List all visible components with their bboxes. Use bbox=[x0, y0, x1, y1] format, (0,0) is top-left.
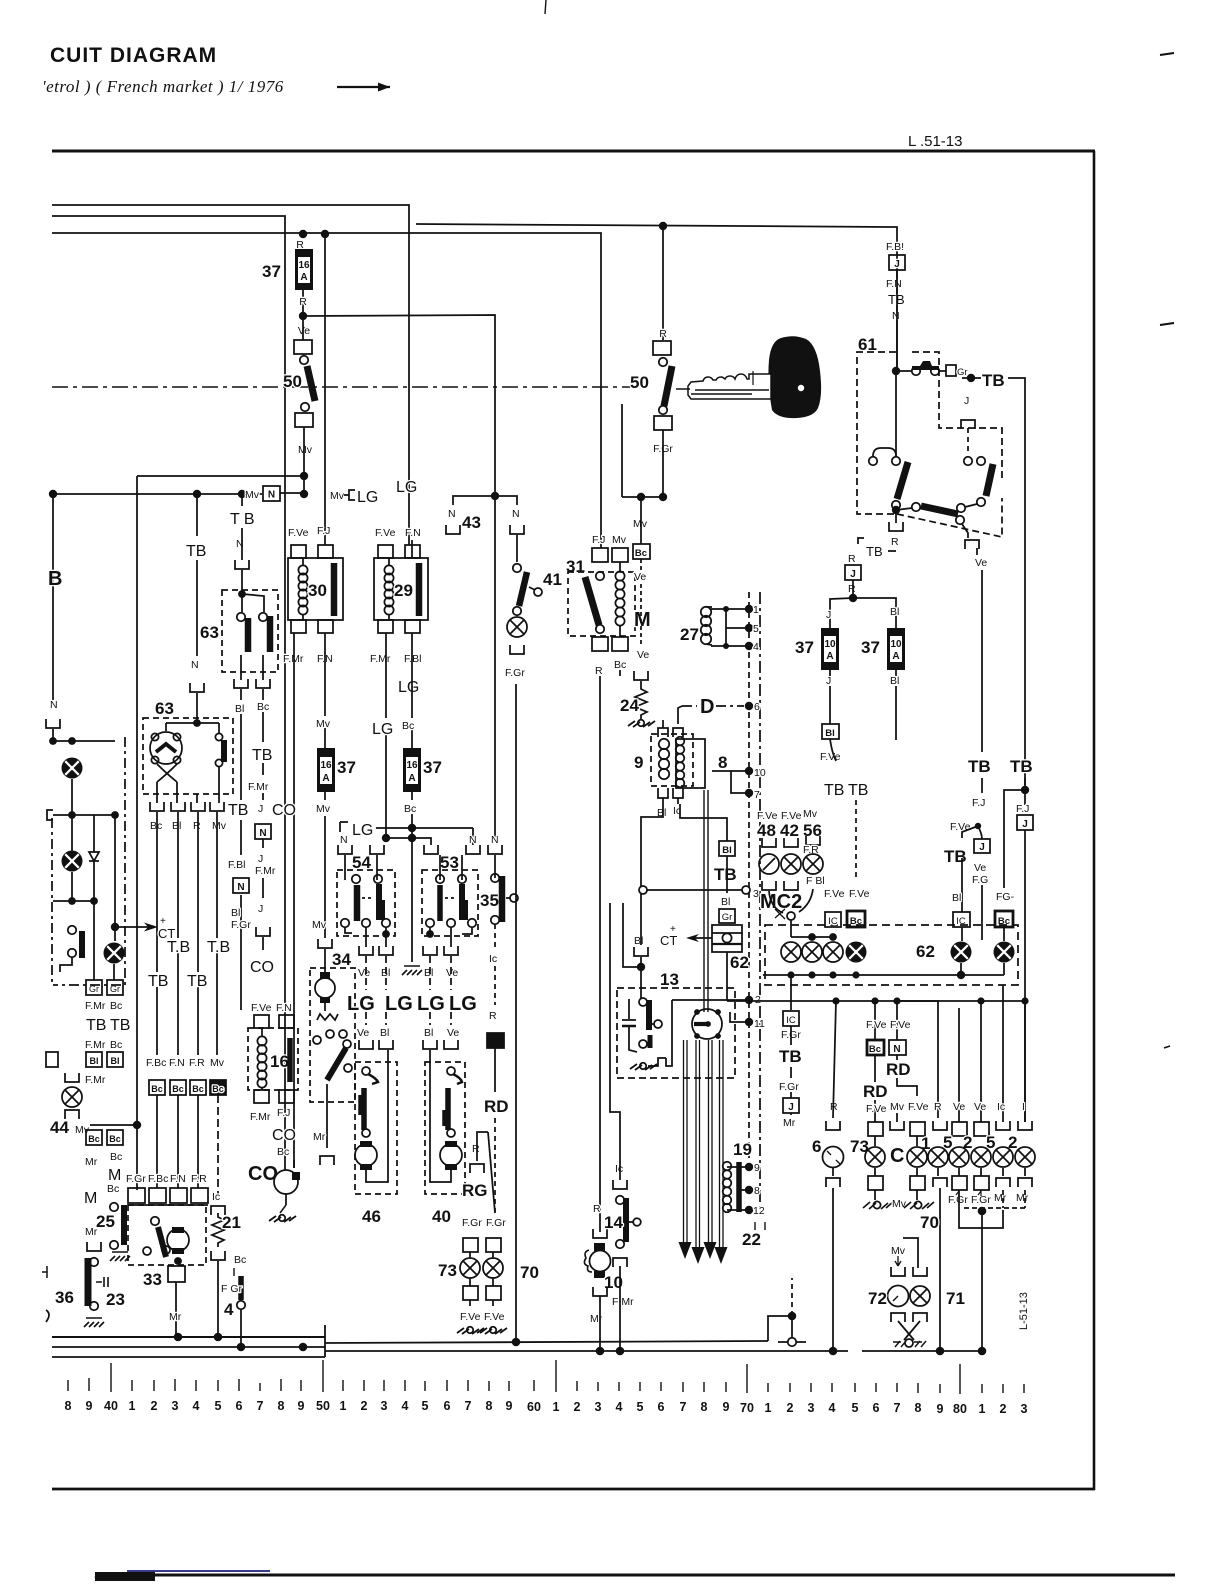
wire x=495 below 35 bbox=[494, 924, 496, 950]
svg-text:Ve: Ve bbox=[357, 1027, 369, 1039]
node (412,838) bbox=[408, 834, 416, 842]
svg-text:TB: TB bbox=[252, 747, 272, 764]
svg-text:Bl: Bl bbox=[890, 675, 899, 687]
wire from Bl box slanting to TB TB pair bbox=[830, 739, 836, 761]
svg-text:F.Mr: F.Mr bbox=[85, 1074, 106, 1086]
wire: vertical x=663 from bus down to switch 50 right bbox=[662, 226, 664, 340]
61 contact circles top-left pair with link bbox=[869, 448, 900, 465]
svg-text:6: 6 bbox=[812, 1137, 821, 1156]
labels Ve Bl below 54 bbox=[358, 967, 390, 979]
connector box N x=240 bbox=[233, 878, 249, 893]
wire down to switch 41 bbox=[516, 535, 518, 562]
node pin10 bbox=[745, 767, 766, 779]
svg-text:16: 16 bbox=[298, 260, 310, 271]
svg-text:7: 7 bbox=[894, 1401, 901, 1415]
svg-text:TB: TB bbox=[944, 847, 967, 866]
wire x=495 into 35 bbox=[494, 855, 496, 878]
34 pivot circles bbox=[343, 1040, 352, 1072]
svg-text:Mv: Mv bbox=[312, 919, 327, 931]
svg-text:5: 5 bbox=[852, 1401, 859, 1415]
svg-text:TB: TB bbox=[228, 802, 248, 819]
svg-text:F.G: F.G bbox=[972, 874, 988, 886]
wire from Gr connector to TB corner wire bbox=[962, 378, 1025, 805]
61 right blade (black) bbox=[986, 464, 993, 496]
svg-text:F.Ve: F.Ve bbox=[950, 821, 971, 833]
34 contact circles bbox=[313, 1030, 347, 1044]
coil 16 bar bbox=[287, 1038, 293, 1082]
wire x=53 to junction y=741 bbox=[52, 729, 54, 741]
instrument lamp x=1003 bbox=[993, 1147, 1013, 1167]
svg-text:2: 2 bbox=[574, 1400, 581, 1414]
40 motor bbox=[440, 1141, 462, 1170]
ruler numbers bbox=[65, 1399, 1028, 1416]
27 leads to strip dots bbox=[711, 609, 749, 646]
svg-text:F.Ve: F.Ve bbox=[288, 527, 309, 539]
bracket below lamp 1003 bbox=[996, 1178, 1010, 1187]
svg-text:CO: CO bbox=[272, 1127, 296, 1144]
labels F.Mr F.J below 16 bbox=[250, 1107, 290, 1123]
35 lower contact circle bbox=[491, 916, 499, 924]
svg-text:Bc: Bc bbox=[172, 1084, 184, 1094]
svg-text:Ve: Ve bbox=[634, 571, 646, 583]
node (72,815) bbox=[68, 811, 76, 819]
wire x=620 below 31 short bbox=[619, 670, 621, 676]
fuse panel connector boxes row bbox=[128, 1188, 208, 1203]
wires below 63 lower box bbox=[157, 767, 219, 803]
labels TB TB bbox=[824, 782, 868, 799]
wire x=981 from rail down bbox=[980, 1001, 982, 1122]
wire from J box to fuse feed node bbox=[852, 580, 854, 598]
svg-text:21: 21 bbox=[222, 1213, 241, 1232]
nodes on 62 bottom rail bbox=[787, 971, 859, 978]
brackets above motor boxes bbox=[359, 1040, 458, 1049]
svg-text:Bc: Bc bbox=[110, 1151, 122, 1163]
heater switch 14 column wire from 13 area bbox=[610, 903, 620, 1180]
labels F.Gr F.Gr above 73 lamps bbox=[462, 1217, 506, 1229]
svg-text:Bc: Bc bbox=[151, 1084, 163, 1094]
label RD x=875 bbox=[862, 1082, 889, 1101]
46 lower contact circle bbox=[362, 1129, 370, 1137]
wire x=409 LG continue (relay29 F.N col) bbox=[411, 545, 413, 558]
node pin1 bbox=[723, 604, 759, 616]
svg-text:60: 60 bbox=[527, 1400, 541, 1414]
switch 50 left: lower contact circle bbox=[301, 403, 309, 411]
brackets below 53 bbox=[423, 946, 458, 955]
spark plug wire 4 bbox=[715, 1040, 728, 1264]
L2 step up to connector bbox=[768, 1316, 792, 1341]
svg-text:1: 1 bbox=[553, 1400, 560, 1414]
bracket above lamp 6 bbox=[826, 1121, 840, 1130]
svg-text:N: N bbox=[491, 834, 499, 846]
svg-text:11: 11 bbox=[754, 1018, 765, 1030]
svg-text:Bl: Bl bbox=[424, 967, 433, 979]
interior lamp feed loop bbox=[903, 1238, 918, 1268]
node on bus y=233 at x=303 bbox=[299, 230, 307, 238]
node (961,975) bbox=[957, 971, 965, 979]
rail below connector row bbox=[128, 1204, 208, 1206]
coil 16 terminals top bbox=[254, 1015, 294, 1028]
instrument lamp x=917 bbox=[907, 1147, 927, 1167]
svg-text:Mv: Mv bbox=[803, 808, 818, 820]
svg-text:62: 62 bbox=[916, 942, 935, 961]
connector box IC x=833 bbox=[825, 912, 841, 927]
wire: long vertical x=137 down to y=1125 bbox=[136, 476, 138, 1125]
LG row big labels bbox=[347, 993, 477, 1015]
svg-text:Mv: Mv bbox=[298, 444, 313, 456]
wire below fuse F5 down to LG rail bbox=[411, 792, 413, 800]
63 distributor rim circles bbox=[151, 733, 180, 763]
svg-text:F.J: F.J bbox=[1016, 803, 1029, 815]
svg-text:N: N bbox=[512, 508, 520, 520]
node pin9 bbox=[745, 1162, 760, 1174]
connector box Bc on x=641 bbox=[633, 544, 650, 559]
dash-dot stub left of key bbox=[676, 388, 690, 390]
contact 4 circle bbox=[237, 1301, 245, 1309]
node (178,1337) bbox=[174, 1333, 183, 1342]
wire x=982 below TB to F.J bbox=[981, 778, 983, 793]
bracket below J bbox=[961, 420, 975, 429]
node (115,815) bbox=[111, 811, 119, 819]
svg-text:LG: LG bbox=[385, 993, 413, 1015]
svg-text:F.Mr: F.Mr bbox=[85, 1000, 106, 1012]
wire x=218 to bottom rail bbox=[217, 1261, 219, 1338]
switch 50 left: upper contact circle bbox=[300, 356, 308, 364]
40 park switch wiggle bbox=[453, 1074, 462, 1084]
ignition key silhouette bbox=[768, 336, 821, 418]
svg-text:Bc: Bc bbox=[869, 1044, 881, 1055]
svg-text:F.Mr: F.Mr bbox=[370, 653, 391, 665]
46 internal return wire bbox=[366, 1050, 388, 1182]
svg-text:Mv: Mv bbox=[330, 490, 345, 502]
svg-text:F.Mr: F.Mr bbox=[248, 781, 269, 793]
62 lamp box bottom rail right part bbox=[856, 974, 1004, 976]
wire x=830 from fuse F2 to Bl box bbox=[829, 686, 831, 724]
svg-text:Mv: Mv bbox=[890, 1101, 905, 1113]
wire x=286 into pump bbox=[285, 1169, 287, 1171]
heater motor 10 bbox=[590, 1243, 611, 1278]
fuse F3 37 (10A) bbox=[887, 628, 905, 670]
bottom rail L3 bbox=[52, 1356, 325, 1358]
node (197,494) bbox=[193, 490, 201, 498]
62 dashed lamp box outline bbox=[765, 925, 1018, 985]
scan artifact: right margin dash 1 bbox=[1160, 53, 1174, 55]
switch 50 right: blade bbox=[664, 366, 672, 406]
wire from node into J box below bbox=[978, 826, 982, 839]
wire x=137 down to bottom rail bbox=[136, 1125, 138, 1190]
node (53,494) bbox=[49, 490, 57, 498]
labels F.Gr F.Gr Mr Mr bbox=[948, 1192, 1029, 1206]
63 upper dashed box bbox=[222, 590, 278, 672]
svg-text:Bc: Bc bbox=[635, 548, 647, 559]
wire x=896 down inside 61 bbox=[895, 371, 897, 457]
bracket end of Mr wire bbox=[320, 1156, 334, 1165]
LG rail y=828 bbox=[376, 827, 473, 829]
label Mv + LG tap symbol bbox=[330, 489, 378, 506]
battery + terminal CT arrow bbox=[660, 924, 712, 948]
svg-text:MC2: MC2 bbox=[760, 891, 802, 913]
svg-text:10: 10 bbox=[890, 639, 902, 650]
connector box Bl B bbox=[107, 1052, 123, 1067]
svg-text:F Gr: F Gr bbox=[221, 1283, 242, 1295]
svg-text:LG: LG bbox=[357, 489, 378, 506]
node (72,901) bbox=[68, 897, 76, 905]
scan artifact: right margin dash 3 bbox=[1164, 1046, 1170, 1048]
svg-text:Mv: Mv bbox=[891, 1245, 906, 1257]
wire x=641 dashed below Bc bbox=[640, 497, 642, 544]
contact stub to circle right in 13 bbox=[652, 1023, 654, 1025]
node (72,741) bbox=[68, 737, 76, 745]
wire x=262 down bbox=[262, 839, 264, 898]
bracket link right of ground bbox=[648, 1058, 666, 1066]
svg-text:2: 2 bbox=[151, 1399, 158, 1413]
connector circle on L4 bbox=[778, 1320, 806, 1346]
svg-text:5: 5 bbox=[637, 1400, 644, 1414]
31 blade (black) bbox=[585, 577, 599, 625]
wire to lamp 73 bbox=[874, 1136, 876, 1146]
wire x=641 dashed to Ve bbox=[640, 584, 642, 645]
svg-text:J: J bbox=[1022, 819, 1028, 830]
flasher taps to pins bbox=[727, 1167, 749, 1210]
svg-text:37: 37 bbox=[337, 758, 356, 777]
wire x=641 segment bbox=[640, 559, 642, 570]
svg-text:F.Gr: F.Gr bbox=[231, 919, 251, 931]
lamp row: labels 1 5 2 5 2 bbox=[921, 1133, 1017, 1153]
svg-text:6: 6 bbox=[444, 1399, 451, 1413]
washer motor 40 dashed box bbox=[425, 1062, 465, 1194]
grounds below 73 lamps bbox=[457, 1327, 507, 1334]
svg-text:Ic: Ic bbox=[489, 953, 497, 965]
svg-text:Mv: Mv bbox=[245, 489, 260, 501]
node (896,371) bbox=[892, 367, 900, 375]
regulator contact circle bbox=[151, 1217, 159, 1225]
node pin8 bbox=[745, 1185, 760, 1197]
label N + 43 connector bbox=[446, 508, 481, 534]
dashed wire J down to contacts bbox=[967, 428, 969, 455]
svg-text:Bl: Bl bbox=[172, 820, 181, 832]
connector box Gr A bbox=[86, 980, 102, 995]
wire x=727 to Bl label bbox=[726, 856, 728, 893]
bracket x=600 bbox=[593, 1229, 607, 1238]
label T.B pair mid bbox=[167, 938, 233, 956]
svg-text:Bc: Bc bbox=[110, 1000, 122, 1012]
53 bottom contact circles bbox=[426, 919, 476, 927]
labels F.Mr Bc row2 bbox=[85, 1039, 122, 1051]
connector box IC x=791 bbox=[783, 1011, 799, 1026]
svg-text:F.R: F.R bbox=[191, 1173, 207, 1185]
wire from coil 9 Ic terminal to Bl box column bbox=[680, 804, 727, 841]
regulator blade bbox=[158, 1227, 166, 1257]
svg-text:Bl: Bl bbox=[380, 1027, 389, 1039]
62 lamp 3 bbox=[823, 942, 843, 962]
labels J F.Mr x=262 bbox=[255, 853, 276, 877]
fog lamp (open) bbox=[62, 1087, 82, 1107]
wire x=938 from rail down bbox=[897, 1001, 938, 1118]
wire from lower contact to Ve bracket bbox=[962, 524, 968, 538]
distributor rotor bar bbox=[694, 1022, 706, 1026]
svg-text:N: N bbox=[893, 1044, 900, 1055]
node (242,494) bbox=[238, 490, 246, 498]
svg-text:35: 35 bbox=[480, 891, 499, 910]
svg-text:7: 7 bbox=[465, 1399, 472, 1413]
label TB on x=197 bbox=[186, 541, 209, 560]
svg-text:Mr: Mr bbox=[1016, 1192, 1029, 1204]
bracket below fog lamp bbox=[65, 1110, 79, 1119]
coil 16 dashed box bbox=[248, 1028, 298, 1090]
coil 9 secondary winding bbox=[676, 737, 685, 788]
svg-text:2: 2 bbox=[1000, 1402, 1007, 1416]
wire: bus line y=225 right section to corner x=897 bbox=[416, 224, 897, 371]
relay 30 box bbox=[288, 558, 343, 620]
svg-text:34: 34 bbox=[332, 950, 351, 969]
wire relay30 F.Mr down bbox=[293, 633, 295, 1168]
svg-text:F Bl: F Bl bbox=[806, 875, 825, 887]
connector box x=875 bbox=[868, 1122, 883, 1136]
bracket x=1025 bbox=[1018, 1121, 1032, 1130]
svg-text:FG-: FG- bbox=[996, 891, 1015, 903]
svg-text:R: R bbox=[659, 328, 667, 340]
63 lower internal feed wires bbox=[166, 723, 219, 733]
wire x=833 lamp6 to rail bbox=[832, 1188, 834, 1351]
svg-text:F.Gr: F.Gr bbox=[779, 1081, 799, 1093]
node (218,1337) bbox=[214, 1333, 223, 1342]
svg-text:Bl: Bl bbox=[825, 728, 835, 739]
warning lamp under 41 bbox=[507, 617, 527, 637]
wire Bc box to lamp bbox=[1003, 927, 1005, 941]
connector box J on x=897 bbox=[889, 255, 905, 270]
relay 29 box bbox=[374, 558, 428, 620]
label Mv above fuse F4 bbox=[316, 716, 334, 730]
wire into 34 bbox=[324, 949, 326, 974]
labels Bl Bc bbox=[235, 701, 269, 715]
node (982,1211) bbox=[978, 1207, 987, 1216]
instrument lamp x=959 bbox=[949, 1147, 969, 1167]
wire from MC2 common down to lamp feed bbox=[790, 920, 792, 937]
wire relay29 F.Mr down bbox=[385, 633, 387, 838]
pilot lamp mid (filled) bbox=[104, 943, 125, 964]
ground below lamp 73b bbox=[863, 1190, 893, 1209]
wire below fuse F3 down bbox=[895, 670, 897, 676]
wire x=516 from 70 down to rail bbox=[515, 1232, 517, 1342]
switch 50 right: upper terminal box bbox=[653, 341, 671, 355]
connector box Bc on x=495 bbox=[487, 1033, 504, 1048]
wire: bus line y=233 turning down at x=601 bbox=[52, 233, 601, 548]
wire x=959 column bbox=[958, 1008, 960, 1122]
bracket above Ve bbox=[965, 540, 979, 549]
bracket x=641 bbox=[634, 947, 648, 956]
labels F.Ve F.Ve above IC Bc bbox=[824, 888, 870, 900]
node (971,378) bbox=[967, 374, 975, 382]
svg-text:4: 4 bbox=[224, 1300, 234, 1319]
wire x=72 lamp to junction y=815 bbox=[71, 779, 73, 866]
svg-text:T.B: T.B bbox=[167, 939, 190, 956]
border: top edge bbox=[52, 150, 1095, 153]
bracket below 14 bbox=[613, 1258, 627, 1267]
coil 16 winding bbox=[257, 1028, 266, 1090]
svg-text:Ic: Ic bbox=[615, 1163, 623, 1175]
labels Bl Ic below coil 9 bbox=[657, 805, 681, 819]
resistor 24 zigzag bbox=[635, 681, 647, 720]
branch from node to x=1004 down bbox=[1004, 790, 1025, 888]
relay 30 coil bbox=[298, 558, 307, 620]
svg-text:Bc: Bc bbox=[277, 1146, 289, 1158]
svg-text:TB: TB bbox=[86, 1017, 106, 1034]
switch 50 right: upper contact circle bbox=[659, 358, 667, 366]
node (641,967) bbox=[637, 963, 645, 971]
svg-text:Bc: Bc bbox=[614, 659, 626, 671]
svg-text:F.J: F.J bbox=[277, 1107, 290, 1119]
scan artifact: right margin dash 2 bbox=[1160, 323, 1174, 325]
svg-text:R: R bbox=[489, 1010, 497, 1022]
wire x=241 to bottom rail bbox=[240, 1309, 242, 1347]
regulator lower circles bbox=[143, 1246, 170, 1255]
bracket x=1003 bbox=[996, 1121, 1010, 1130]
31 lower contact circle bbox=[596, 625, 604, 633]
battery 62 bbox=[712, 925, 742, 952]
svg-text:J: J bbox=[964, 395, 969, 407]
connector box N x=262 bbox=[255, 824, 271, 839]
wire: vertical x=242 into 63 relay box bbox=[241, 570, 243, 594]
63 upper bottom stubs bbox=[241, 655, 263, 680]
wire battery minus down bbox=[726, 952, 728, 1001]
fuse F5 37 (16A) bbox=[403, 748, 421, 792]
svg-text:TB: TB bbox=[186, 543, 206, 560]
svg-text:9: 9 bbox=[298, 1399, 305, 1413]
distributor 13 dashed box bbox=[617, 988, 735, 1078]
svg-text:Bc: Bc bbox=[107, 1183, 119, 1195]
svg-text:80: 80 bbox=[953, 1402, 967, 1416]
svg-text:6: 6 bbox=[754, 701, 760, 713]
svg-text:4: 4 bbox=[753, 641, 759, 653]
svg-text:R: R bbox=[891, 536, 899, 548]
wire x=157 down bbox=[156, 812, 158, 1055]
labels F.Mr Bc below Gr boxes bbox=[85, 1000, 122, 1012]
svg-text:Ve: Ve bbox=[974, 862, 986, 874]
svg-text:Ve: Ve bbox=[298, 325, 310, 337]
number plate lamps 73 bbox=[460, 1258, 503, 1278]
node pin11 bbox=[730, 1012, 765, 1030]
svg-text:Bc: Bc bbox=[234, 1254, 246, 1266]
53 bottom links bbox=[430, 927, 472, 947]
73 lamp connector boxes bottom bbox=[463, 1286, 501, 1300]
svg-text:N: N bbox=[50, 699, 58, 711]
svg-text:37: 37 bbox=[262, 262, 281, 281]
breaker bar upper in 13 bbox=[646, 1000, 652, 1030]
svg-text:44: 44 bbox=[50, 1118, 69, 1137]
wire: horizontal y=497 (622 to 663) bbox=[622, 496, 663, 498]
svg-text:A: A bbox=[300, 272, 307, 283]
ignition coil 9 dashed box bbox=[651, 734, 693, 786]
svg-text:J: J bbox=[258, 903, 263, 915]
wire x=982 long vertical to TB label bbox=[981, 570, 983, 752]
bracket 54 right terminal bbox=[370, 845, 384, 854]
bottom rail L1 bbox=[52, 1336, 325, 1338]
svg-text:N: N bbox=[448, 508, 456, 520]
breaker bar lower in 13 bbox=[648, 1035, 653, 1048]
svg-text:16: 16 bbox=[406, 760, 418, 771]
svg-text:Mv: Mv bbox=[212, 820, 227, 832]
wire x=897 from J box to 61 box bbox=[896, 270, 898, 371]
31 coil bbox=[615, 562, 624, 637]
labels Bl Ve below 53 columns bbox=[424, 1027, 459, 1039]
svg-text:Mr: Mr bbox=[994, 1192, 1007, 1204]
svg-text:23: 23 bbox=[106, 1290, 125, 1309]
wire horizontal y=476 from x=137 bbox=[137, 475, 304, 477]
bottom rail L2 right portion bbox=[325, 1341, 768, 1343]
fuse F2 37 (10A) bbox=[821, 628, 839, 670]
wire x=72 to y=901 rail bbox=[71, 872, 73, 901]
53 wire stubs into box bbox=[440, 855, 462, 880]
svg-text:40: 40 bbox=[104, 1399, 118, 1413]
